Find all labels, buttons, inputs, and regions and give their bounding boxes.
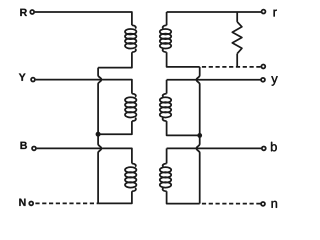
primary neutral chain wire with hops over Y and B lines	[98, 68, 101, 204]
wire secondary coil 3 top lead	[166, 148, 168, 163]
terminal n	[261, 202, 265, 206]
winding a2 (r secondary coil)	[160, 25, 171, 52]
label b	[271, 142, 277, 151]
label y	[271, 76, 277, 85]
wire y line	[167, 79, 261, 81]
wire Y coil bottom to star point	[98, 121, 132, 134]
wire R line to primary coil 1 top	[35, 12, 132, 25]
terminal Y	[31, 78, 35, 82]
wire Y line to primary coil 2 top	[36, 80, 132, 94]
wire b coil bottom to chain bottom	[167, 191, 200, 203]
terminal B	[32, 146, 36, 150]
resistor bottom lead	[236, 54, 238, 67]
dashed bus to open terminal	[202, 66, 261, 68]
wire r coil bottom to secondary chain	[167, 52, 200, 67]
wire secondary coil 2 top lead	[166, 80, 168, 94]
terminal R	[30, 10, 34, 14]
winding A1 (R primary coil)	[125, 25, 136, 52]
terminal open (broken link)	[261, 65, 265, 69]
terminal N	[29, 201, 33, 205]
label B	[20, 142, 26, 149]
resistor zigzag	[232, 22, 242, 54]
wire y coil bottom to secondary star point	[167, 121, 200, 135]
winding c2 (b secondary coil)	[160, 164, 171, 192]
terminal r	[262, 10, 266, 14]
terminal y	[261, 78, 265, 82]
wire secondary coil 1 top lead	[166, 12, 168, 25]
dashed neutral wire N	[35, 202, 98, 204]
wire B line to primary coil 3 top	[37, 148, 132, 163]
wire B coil bottom to chain bottom	[98, 191, 132, 203]
label n	[272, 201, 277, 208]
dashed neutral wire n	[202, 203, 261, 205]
winding C1 (B primary coil)	[125, 164, 136, 192]
secondary neutral chain with hops over y and b lines	[196, 67, 199, 204]
resistor top lead	[236, 12, 238, 22]
label N	[19, 199, 25, 206]
label Y	[19, 74, 26, 81]
junction dot secondary star point	[197, 133, 202, 138]
winding b2 (y secondary coil)	[160, 94, 171, 122]
wire r line from secondary coil 1	[167, 11, 262, 13]
label r	[274, 10, 277, 17]
label R	[20, 9, 27, 16]
wire b line	[167, 147, 262, 149]
terminal b	[262, 146, 266, 150]
junction dot primary star point	[96, 132, 101, 137]
wire R coil bottom to neutral chain	[98, 52, 132, 67]
winding B1 (Y primary coil)	[125, 94, 136, 122]
